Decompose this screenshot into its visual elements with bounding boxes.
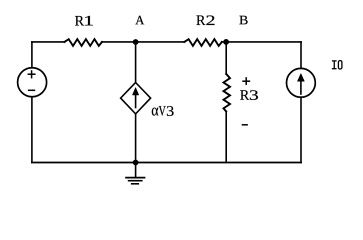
wire R3 to bottom — [225, 112, 227, 163]
current source arrow shaft — [300, 80, 302, 94]
resistor R3 vertical — [224, 74, 231, 112]
voltage source minus sign — [28, 89, 35, 91]
wire bottom — [32, 162, 301, 164]
wire right vertical below current source — [300, 97, 302, 162]
wire R1 to node A — [102, 41, 136, 43]
wire dependent source to bottom node — [135, 114, 137, 163]
resistor R1 — [64, 39, 102, 46]
voltage source V1 circle — [18, 68, 47, 97]
R3 minus sign — [242, 124, 248, 126]
wire left vertical below voltage source — [31, 97, 33, 163]
label R1 — [75, 16, 93, 26]
node B junction dot — [223, 39, 229, 45]
current source I0 circle — [287, 68, 316, 97]
label B (node B) — [239, 16, 247, 24]
node A junction dot — [133, 39, 139, 45]
current source arrow head — [297, 74, 304, 82]
label I0 (current source) — [332, 61, 342, 69]
dependent source arrow head — [132, 88, 138, 96]
label R3 — [240, 90, 258, 100]
ground bar 2 — [128, 180, 143, 182]
ground stem — [135, 163, 137, 178]
wire left vertical above voltage source — [31, 42, 33, 68]
wire node A to R2 — [136, 41, 185, 43]
voltage source plus sign — [28, 73, 36, 75]
wire right vertical above current source — [300, 42, 302, 68]
ground bar 3 — [131, 183, 139, 185]
label A (node A) — [135, 16, 144, 24]
resistor R2 — [184, 39, 222, 46]
wire node B down to R3 — [225, 42, 227, 74]
dependent source diamond — [121, 83, 151, 114]
wire node B to top-right corner — [226, 41, 301, 43]
R3 plus sign — [242, 80, 250, 82]
label R2 — [196, 16, 214, 26]
ground bar 1 — [125, 177, 145, 179]
wire R2 to node B — [222, 41, 226, 43]
wire node A down to dependent source — [135, 42, 137, 83]
wire top-left corner to R1 — [32, 41, 65, 43]
ground node junction dot — [133, 160, 139, 166]
dependent source arrow shaft — [135, 94, 137, 108]
label alpha-V3 (dependent source gain) — [152, 106, 174, 116]
